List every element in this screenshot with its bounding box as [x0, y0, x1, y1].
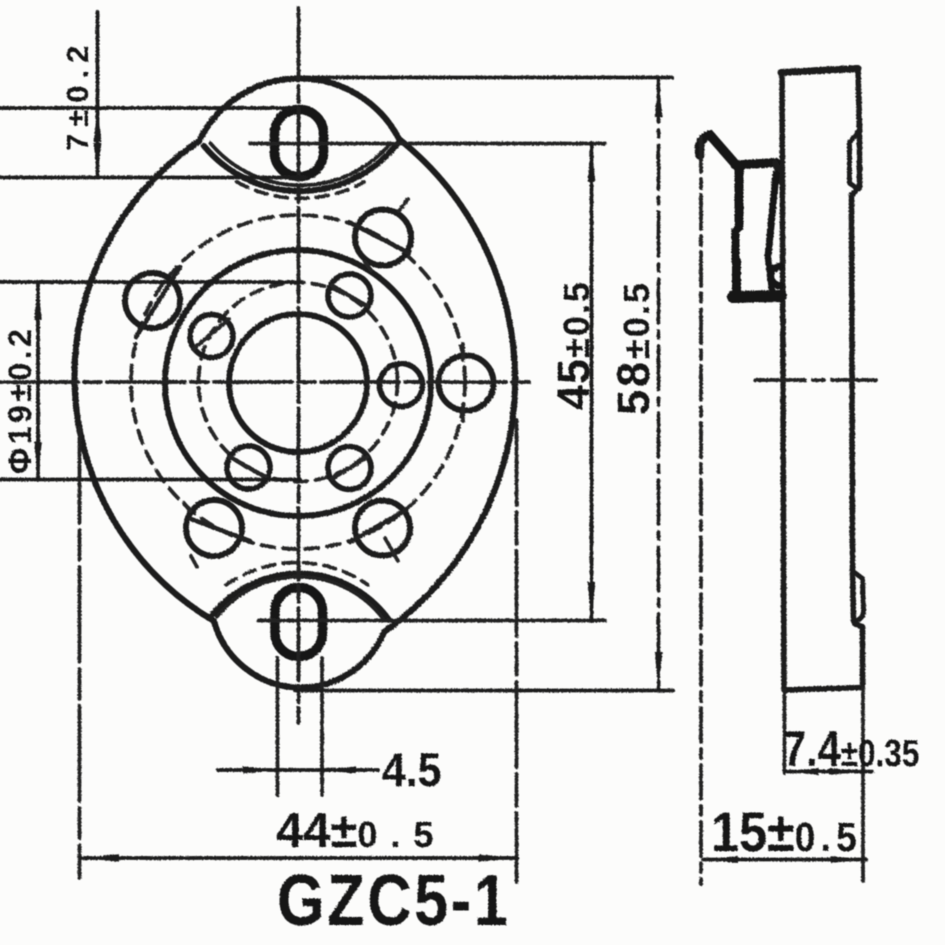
- dim 4.5 text: [382, 743, 441, 796]
- side view vertical dash-dot line: [699, 138, 703, 884]
- dim 7.4 dimension line: [785, 770, 872, 774]
- dim 7 arrow down: [94, 143, 102, 177]
- dim 15 arrow right: [831, 856, 865, 863]
- dim 44 dimension line: [80, 856, 517, 860]
- dim 7.4 arrow right: [829, 768, 862, 775]
- dim phi19 bottom extension line: [0, 478, 300, 482]
- clip foot bottom bar: [733, 296, 781, 297]
- dim phi19 dimension line: [36, 282, 40, 480]
- dim 58 arrow down: [655, 652, 663, 690]
- svg-text:45±0.5: 45±0.5: [548, 280, 599, 410]
- clip box left edge: [735, 166, 744, 227]
- clip left step: [736, 227, 740, 261]
- dim 4.5 dimension line: [218, 768, 378, 772]
- dim 58 arrow up: [655, 79, 663, 118]
- dim 44 arrow right: [478, 854, 516, 862]
- dim 15 arrow left: [704, 856, 738, 863]
- dim 7 top extension line: [0, 106, 295, 110]
- bottom ear dish arc outer: [210, 574, 389, 620]
- top slot horizontal centerline / 45 extension: [250, 142, 605, 146]
- svg-text:Φ19±0.2: Φ19±0.2: [2, 326, 38, 474]
- lug hole L4 radial ticks: [184, 503, 197, 567]
- title GZC5-1: [277, 860, 510, 941]
- dim 45 arrow down: [588, 582, 596, 620]
- dim 58 top extension line: [304, 76, 672, 80]
- lug hole L4 slash: [191, 519, 250, 541]
- lug hole L2 radial ticks: [365, 199, 408, 270]
- svg-text:58±0.5: 58±0.5: [608, 281, 659, 415]
- dim phi19 top extension line: [0, 280, 300, 284]
- lug hole L5 slash: [350, 510, 406, 542]
- svg-text:7±0.2: 7±0.2: [60, 39, 95, 151]
- clip foot left edge: [732, 261, 741, 296]
- pin hole P4 (lower left): [227, 446, 270, 489]
- lug hole L3 slash: [136, 267, 180, 337]
- dim 7 bottom extension line: [0, 176, 306, 180]
- horizontal centerline: [0, 380, 535, 384]
- flange outline: [75, 78, 516, 687]
- side view body outline: [782, 68, 863, 690]
- lug hole L2 (upper right): [355, 210, 411, 266]
- clip top bar right drop: [776, 163, 781, 181]
- dim 45 arrow up: [588, 144, 596, 182]
- side body right edge extension: [861, 688, 865, 881]
- pin pitch circle (dashed): [199, 283, 398, 482]
- side body left edge extension: [783, 690, 787, 773]
- dim 4.5 arrow left: [323, 766, 357, 773]
- lug pitch circle (dashed): [131, 215, 465, 549]
- pin hole P2 (upper right): [328, 274, 371, 317]
- svg-text:15±0.5: 15±0.5: [711, 802, 862, 864]
- lug hole L1 (right): [439, 356, 494, 411]
- dim 7 arrow up: [94, 109, 102, 143]
- lug hole L4 (lower left): [186, 500, 242, 556]
- vertical centerline: [297, 8, 301, 723]
- lug hole L2 slash: [350, 223, 409, 254]
- clip leaf lower link: [768, 257, 772, 290]
- pin hole P5 (lower right): [328, 447, 371, 490]
- pin hole P3 slash: [193, 319, 229, 349]
- top mounting slot: [275, 110, 324, 177]
- dim 44 arrow left: [81, 854, 119, 862]
- central hole: [229, 314, 367, 452]
- bottom ear dish arc inner: [217, 577, 383, 619]
- dim 7.4 arrow left: [786, 768, 819, 775]
- svg-text:7.4±0.35: 7.4±0.35: [783, 720, 919, 777]
- lug hole L3 (upper left): [125, 273, 180, 328]
- side body top edge (thick): [781, 69, 858, 73]
- top ear dish arc inner: [211, 143, 391, 185]
- bottom ear dashed arc: [226, 562, 368, 584]
- dim 4.5 arrow right: [243, 766, 277, 773]
- dim 45 dimension line: [590, 143, 594, 621]
- pin hole P5 slash: [332, 458, 367, 479]
- dim 44 left extension line: [78, 428, 82, 878]
- dim phi19 arrow down: [34, 442, 42, 479]
- bottom slot side extension lines: [278, 658, 323, 795]
- dim 58 dimension line (dash-dot): [657, 78, 661, 690]
- dim 58 bottom extension line: [295, 689, 673, 693]
- top ear dashed arc: [237, 182, 364, 198]
- dim 7 dimension line: [96, 12, 100, 177]
- lug hole L5 (lower right): [355, 501, 410, 556]
- svg-text:4.5: 4.5: [382, 743, 441, 796]
- bottom slot horizontal centerline / 45 extension: [258, 619, 605, 623]
- clip leaf diagonal: [768, 174, 776, 257]
- svg-text:GZC5-1: GZC5-1: [277, 860, 510, 941]
- bottom mounting slot: [275, 588, 323, 657]
- clip bottom curl: [771, 267, 781, 286]
- clip box top bar: [735, 163, 776, 166]
- pin hole P2 slash: [332, 286, 367, 307]
- lug hole L5 radial tick: [385, 538, 398, 561]
- pin hole P4 slash: [230, 457, 267, 478]
- svg-text:44±0.5: 44±0.5: [276, 804, 446, 858]
- dim 15 dimension line: [703, 858, 866, 862]
- top ear dish arc outer: [204, 144, 397, 191]
- bottom right notch bulge: [853, 572, 864, 621]
- dim 7.4 text: [783, 720, 919, 777]
- pin hole P3 (upper left): [190, 315, 233, 358]
- clip hook: [699, 135, 737, 166]
- dim 44 right extension line: [515, 420, 519, 882]
- dim phi19 arrow up: [34, 283, 42, 320]
- top right notch bulge: [850, 131, 860, 190]
- boss circle: [165, 250, 431, 516]
- lug hole L1 centerline ticks: [461, 344, 465, 421]
- pin hole P1 (right): [380, 364, 423, 407]
- dim 15 text: [711, 802, 862, 864]
- side view horizontal centerline: [755, 378, 876, 382]
